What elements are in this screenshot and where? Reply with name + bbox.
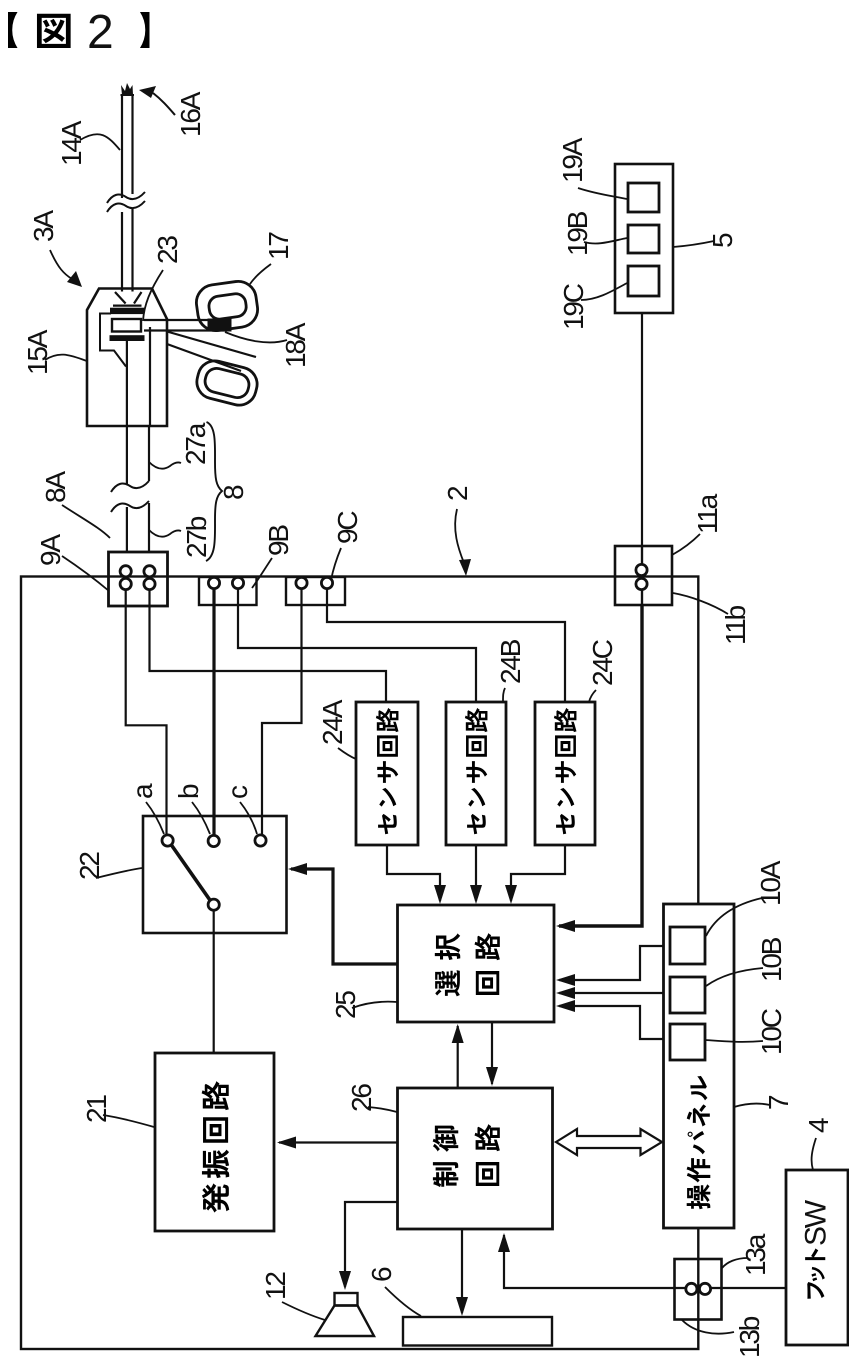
leader 24C	[589, 690, 596, 702]
wire 10A to 25	[559, 946, 670, 980]
oscillation circuit block 21	[155, 1053, 274, 1231]
indicator 19C	[628, 266, 659, 296]
selection circuit block 25	[398, 905, 555, 1022]
finger ring 17	[194, 279, 260, 333]
svg-text:6: 6	[366, 1267, 397, 1282]
arrow 3A	[50, 250, 72, 279]
text sensor circuit 24A	[376, 708, 399, 834]
switch contact b	[208, 835, 219, 846]
switch pole	[208, 899, 219, 910]
svg-text:27a: 27a	[180, 422, 211, 465]
sensor circuit block 24B	[446, 702, 506, 845]
cable break mark	[111, 481, 149, 492]
arrow 16A	[153, 93, 175, 115]
leader 10A	[706, 898, 762, 936]
text sensor circuit 24B	[465, 708, 488, 834]
svg-text:12: 12	[260, 1272, 291, 1300]
leader 9A	[62, 556, 109, 591]
connector 13 box	[675, 1259, 722, 1320]
scissor pivot	[208, 319, 231, 331]
svg-text:10B: 10B	[756, 937, 787, 982]
handpiece body 15A	[87, 289, 167, 427]
cable 8 below body	[126, 426, 128, 485]
transducer plate	[111, 308, 145, 313]
cable cores inside body	[126, 341, 128, 427]
horn cone	[113, 292, 142, 306]
connector 13 pins	[686, 1283, 697, 1294]
svg-text:13b: 13b	[734, 1316, 765, 1358]
switch contact a	[162, 835, 173, 846]
leader 22	[96, 868, 142, 878]
figure title	[8, 6, 149, 59]
wire 9B-b to sensor 24B	[238, 589, 476, 702]
leader c	[240, 802, 257, 834]
svg-text:19B: 19B	[562, 211, 593, 256]
svg-text:2: 2	[87, 6, 114, 59]
double arrow 26 to 7	[556, 1129, 662, 1155]
leader 17	[250, 264, 271, 284]
leader 6	[385, 1287, 421, 1316]
finger ring 18A	[193, 357, 260, 408]
indicator 19A	[628, 183, 659, 212]
leader 13a	[722, 1258, 748, 1268]
button 10B	[670, 977, 705, 1013]
probe break mark	[107, 192, 145, 203]
connector 9B box	[199, 577, 257, 605]
wire 25 to switch 22 select (bold)	[291, 869, 398, 964]
wire 24B to 25	[475, 845, 477, 901]
sensor circuit block 24C	[535, 702, 595, 845]
operation panel box 7	[664, 904, 735, 1228]
leader 21	[103, 1115, 154, 1127]
leader 19B	[584, 238, 627, 243]
svg-text:24B: 24B	[495, 639, 526, 684]
wire 26 to speaker 12	[345, 1202, 398, 1287]
leader 14A	[80, 134, 120, 150]
svg-text:5: 5	[707, 233, 738, 248]
svg-text:24C: 24C	[587, 639, 618, 686]
connector 9B pins	[208, 577, 219, 588]
indicator 19B	[628, 225, 659, 253]
leader 12	[282, 1302, 325, 1320]
svg-text:SW: SW	[799, 1199, 832, 1246]
leader 11a	[672, 534, 700, 555]
leader 27a	[149, 462, 181, 469]
wire 9A-a to switch contact a	[126, 589, 167, 835]
svg-text:9C: 9C	[332, 511, 363, 544]
block 6	[403, 1317, 552, 1346]
wire through connector 11	[641, 546, 643, 605]
leader 5	[673, 241, 714, 247]
leader 10B	[706, 968, 763, 986]
svg-text:10C: 10C	[756, 1008, 787, 1055]
leader 9B	[252, 558, 272, 588]
svg-text:27b: 27b	[181, 516, 212, 558]
leader 18A	[225, 332, 287, 342]
lower arm	[167, 332, 256, 358]
wire 26 to 6	[461, 1229, 463, 1313]
wire 9C-b to sensor 24C	[327, 589, 565, 702]
selector switch 22 box	[143, 816, 287, 933]
leader b	[192, 802, 210, 834]
text selection circuit	[435, 933, 460, 996]
wire 26 to 25 (up arrow)	[457, 1026, 459, 1088]
bracket 8	[206, 422, 222, 561]
connector 9C box	[286, 577, 345, 605]
leader 4	[812, 1138, 816, 1170]
text oscillation circuit	[202, 1081, 230, 1212]
text control circuit	[433, 1126, 459, 1188]
wire connector 11 to 25 (bold)	[559, 605, 642, 926]
svg-text:21: 21	[81, 1095, 112, 1123]
svg-text:22: 22	[74, 852, 105, 880]
leader 24A	[338, 748, 356, 759]
arrow 2	[455, 509, 464, 563]
leader 23	[143, 270, 163, 321]
leader 7	[734, 1104, 770, 1107]
leader 26	[368, 1107, 397, 1112]
svg-text:16A: 16A	[175, 91, 206, 137]
wire footswitch to 26	[504, 1235, 786, 1288]
wire 10B to 25	[559, 992, 670, 994]
inner housing line	[100, 314, 126, 367]
svg-text:2: 2	[442, 486, 473, 501]
display unit 5	[615, 164, 673, 313]
scissor bar	[144, 319, 231, 321]
wire switch pole to oscillator 21	[213, 910, 215, 1053]
transducer plate 2	[110, 336, 144, 341]
svg-text:14A: 14A	[56, 120, 87, 166]
leader 19C	[581, 283, 627, 300]
svg-text:b: b	[173, 784, 204, 799]
text foot SW	[805, 1248, 825, 1298]
text operation panel	[687, 1076, 711, 1209]
connector 9A pins	[120, 566, 131, 577]
button 10C	[670, 1024, 705, 1060]
switch wiper (bold)	[170, 843, 212, 903]
svg-text:25: 25	[330, 991, 361, 1019]
wire display to connector 11	[641, 313, 643, 605]
speaker 12	[335, 1293, 358, 1306]
svg-text:13a: 13a	[740, 1233, 771, 1276]
svg-text:23: 23	[152, 236, 183, 264]
svg-text:24A: 24A	[317, 699, 348, 745]
button 10A	[670, 927, 705, 964]
leader 8A	[62, 505, 110, 538]
leader 25	[352, 1002, 397, 1008]
text sensor circuit 24C	[554, 708, 577, 834]
connector 9C pins	[296, 577, 307, 588]
leader 24B	[503, 688, 505, 702]
main unit box 2 outline	[21, 577, 698, 1350]
wire 24C to 25	[511, 845, 565, 901]
connector 9A box	[109, 552, 168, 606]
control circuit block 26	[398, 1088, 553, 1229]
svg-text:15A: 15A	[22, 329, 53, 375]
svg-text:7: 7	[763, 1095, 794, 1110]
svg-text:9B: 9B	[263, 525, 294, 556]
svg-text:17: 17	[263, 232, 294, 260]
svg-text:19C: 19C	[558, 283, 589, 330]
svg-text:8: 8	[218, 485, 249, 500]
leader 13b	[682, 1320, 734, 1334]
svg-text:4: 4	[803, 1118, 834, 1133]
wire 9B-a to switch contact b (bold)	[212, 589, 215, 835]
leader 10C	[706, 1040, 763, 1042]
wire 25 to 26 (down arrow)	[491, 1022, 493, 1084]
svg-text:18A: 18A	[280, 322, 311, 368]
svg-text:19A: 19A	[557, 137, 588, 183]
wire 24A to 25	[387, 845, 440, 901]
svg-text:8A: 8A	[40, 471, 71, 503]
svg-text:9A: 9A	[35, 534, 66, 566]
wire 26 to 21	[279, 1141, 398, 1143]
foot switch block 4	[786, 1170, 848, 1345]
wire 9A-b to sensor 24A	[150, 589, 387, 702]
wire 10C to 25	[559, 1006, 670, 1039]
switch contact c	[255, 835, 266, 846]
connector 11 pins	[636, 564, 647, 575]
svg-text:3A: 3A	[28, 210, 59, 242]
leader 11b	[673, 593, 728, 614]
leader a	[146, 802, 164, 834]
element 23 white box	[112, 319, 141, 332]
sensor circuit block 24A	[356, 702, 418, 845]
leader 19A	[578, 188, 627, 199]
svg-text:11a: 11a	[692, 493, 723, 534]
probe shaft 14A	[121, 83, 135, 292]
leader 15A	[45, 355, 87, 361]
connector 11 box	[615, 546, 672, 605]
wire 9C-a to switch contact c	[262, 589, 302, 835]
leader 27b	[149, 530, 181, 537]
leader 9C	[331, 548, 341, 580]
